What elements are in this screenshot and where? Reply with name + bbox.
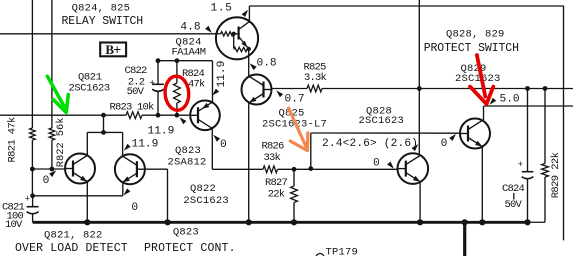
svg-text:C822: C822 xyxy=(125,65,148,77)
resistor R822 body xyxy=(49,128,55,140)
svg-text:PROTECT CONT.: PROTECT CONT. xyxy=(144,242,236,255)
svg-text:2SC1623: 2SC1623 xyxy=(69,82,110,94)
node dot Q822 base drop on bus xyxy=(164,219,170,225)
wire collector tie line y=132.4 xyxy=(87,131,122,133)
probe arrow 1.5 xyxy=(242,10,249,17)
node dot R829 top on y=88.5 xyxy=(543,86,548,91)
wire R825 to right continuing xyxy=(322,88,573,90)
node dot 2.4 line bottom xyxy=(308,166,313,171)
svg-text:Q822: Q822 xyxy=(190,183,216,195)
wire B+ horizontal line xyxy=(0,33,217,35)
resistor R825 body xyxy=(307,85,322,92)
svg-text:50V: 50V xyxy=(127,86,145,98)
annotation green arrow xyxy=(47,76,65,108)
node dot collector tie xyxy=(101,130,106,135)
svg-text:Q824, 825: Q824, 825 xyxy=(72,3,131,15)
wire 2.4 line horizontal y=133.6 to Q829 base xyxy=(311,132,460,134)
node dot R824 top xyxy=(175,58,180,63)
wire C824 vertical lower to bus xyxy=(527,179,529,222)
probe arrow 0 at Q823 collector xyxy=(213,135,220,142)
wire top rail y=60.7 C822/R824 to Q823 emitter xyxy=(158,60,213,62)
resistor R823 body on rail xyxy=(126,112,142,119)
test point TP179 circle xyxy=(316,254,324,256)
probe arrow 0 Q829 base xyxy=(449,134,456,141)
svg-text:+: + xyxy=(150,79,155,89)
probe arrow 0 emitter return xyxy=(124,188,131,195)
wire vertical R822 run x=51.9 xyxy=(51,0,53,128)
node dot R822 bottom xyxy=(50,167,55,172)
capacitor C821 xyxy=(32,196,34,206)
wire Q822 emitter drop x=122.8 xyxy=(122,182,124,196)
resistor R821 body xyxy=(30,128,36,140)
transistor Q828 xyxy=(398,153,429,184)
svg-text:11.9: 11.9 xyxy=(216,61,228,88)
svg-text:+: + xyxy=(113,42,121,57)
capacitor C824 xyxy=(522,171,534,173)
svg-text:OVER LOAD DETECT: OVER LOAD DETECT xyxy=(15,242,128,255)
svg-text:2SC1623: 2SC1623 xyxy=(183,195,229,207)
label C824 value 1 xyxy=(513,193,515,200)
wire main 11.9V rail horizontal xyxy=(0,114,126,116)
probe arrow 0 Q828 base xyxy=(387,162,394,169)
svg-text:+: + xyxy=(518,160,523,170)
svg-text:33k: 33k xyxy=(264,152,281,164)
node dot R827 top xyxy=(292,167,297,172)
svg-text:R822 56k: R822 56k xyxy=(55,118,67,168)
svg-text:Q823: Q823 xyxy=(173,227,199,239)
annotation red arrow xyxy=(477,55,485,96)
svg-text:2.4<2.6> (2.6): 2.4<2.6> (2.6) xyxy=(322,138,418,150)
Q824 internal base lead and bar xyxy=(234,33,239,35)
svg-text:+: + xyxy=(25,194,30,204)
wire vertical R821 run x=32.4 xyxy=(31,0,33,128)
wire Q823 collector run y=169.3 to R826 xyxy=(212,168,263,170)
svg-text:R829 22k: R829 22k xyxy=(550,152,562,198)
svg-text:0.8: 0.8 xyxy=(257,58,277,70)
transistor Q825 (mirrored) xyxy=(242,75,272,105)
wire Q824 emitter to Q825 collector x=248.7 xyxy=(248,49,250,77)
node dot C822 top xyxy=(156,58,161,63)
probe arrow 0.8 xyxy=(250,63,257,70)
svg-text:Q828, 829: Q828, 829 xyxy=(446,29,505,41)
node dot R824 bottom on rail xyxy=(175,113,180,118)
probe arrow 0 Q821 base xyxy=(49,170,56,177)
svg-text:FA1A4M: FA1A4M xyxy=(172,46,206,58)
wire 2.4 line vertical x=310.8 xyxy=(310,133,312,169)
wire Q824 collector up x=249.4 xyxy=(248,6,250,22)
svg-text:50V: 50V xyxy=(505,199,523,211)
node dot Q825 emitter on bus xyxy=(246,219,252,225)
resistor R829 vertical xyxy=(544,89,546,164)
node dot x=419.3 on y=88.5 line xyxy=(417,86,422,91)
annotation red circle around R824 xyxy=(164,75,190,111)
wire Q821 emitter down to bus xyxy=(86,182,88,223)
transistor Q829 xyxy=(460,119,490,149)
node dot Q824 emitter junction xyxy=(247,47,251,51)
svg-text:R827: R827 xyxy=(265,177,288,189)
node dot Q824 internal node xyxy=(232,32,236,36)
node dot rail x=103.5 xyxy=(101,113,106,118)
node dot Q829 emitter on bus xyxy=(479,219,485,225)
wire ground stem thick below bus xyxy=(463,222,466,256)
probe arrow 11.9 R824 node xyxy=(180,117,187,124)
node dot C821 top xyxy=(30,193,35,198)
wire Q825 emitter down to bus xyxy=(248,102,250,222)
svg-text:Q821, 822: Q821, 822 xyxy=(44,229,103,241)
wire y=195.8 emitter return line xyxy=(33,195,123,197)
node dot ground stem xyxy=(462,219,468,225)
svg-text:0.7: 0.7 xyxy=(285,94,305,106)
svg-text:11.9: 11.9 xyxy=(148,125,175,137)
wire top horizontal y=6 xyxy=(249,5,564,7)
transistor Q822 (mirrored) xyxy=(115,154,145,184)
wire Q822 collector up x=122.6 xyxy=(122,132,124,156)
resistor R824 vertical xyxy=(176,61,178,83)
B+ box xyxy=(100,43,126,57)
svg-text:0: 0 xyxy=(131,202,138,214)
svg-text:0: 0 xyxy=(373,158,380,170)
svg-text:R821 47k: R821 47k xyxy=(6,117,18,163)
wire R826 to Q828 base xyxy=(278,168,398,170)
svg-text:RELAY SWITCH: RELAY SWITCH xyxy=(62,15,144,28)
transistor Q823 PNP xyxy=(190,101,220,131)
svg-text:2SC1623: 2SC1623 xyxy=(359,115,405,127)
wire right border vertical x=563.5 xyxy=(563,6,565,240)
node dot R827 bottom on bus xyxy=(291,219,297,225)
wire Q821 base line y=169 xyxy=(32,168,65,170)
wire C824 vertical upper xyxy=(527,89,529,172)
wire Q829 collector horizontal y=106 to right edge xyxy=(484,105,573,107)
node dot C822 bottom on rail xyxy=(156,113,161,118)
node dot R821 bottom xyxy=(30,167,35,172)
Q824 internal input resistor xyxy=(221,32,234,36)
capacitor C822 xyxy=(157,61,159,84)
wire Q828 emitter down to bus xyxy=(419,182,421,222)
probe arrow 0.7 xyxy=(276,90,283,97)
svg-text:2SA812: 2SA812 xyxy=(168,157,207,169)
node dot Q821 emitter on bus xyxy=(84,219,90,225)
svg-text:R826: R826 xyxy=(262,140,285,152)
annotation orange arrow xyxy=(289,108,306,146)
Q824 internal resistor to emitter xyxy=(233,34,235,48)
wire x=32.4 down to C821 xyxy=(31,169,33,196)
transistor Q821 xyxy=(65,154,95,184)
wire x=419.3 vertical from top edge down to Q828 xyxy=(418,0,420,156)
wire Q829 emitter down to bus xyxy=(481,147,483,223)
svg-text:3.3k: 3.3k xyxy=(304,72,327,84)
svg-text:0: 0 xyxy=(441,138,448,150)
wire Q822 base to x=167.5 then down to bus xyxy=(145,168,168,170)
probe arrow 4.8 xyxy=(205,26,212,33)
svg-text:22k: 22k xyxy=(268,188,285,200)
ground bus thick horizontal xyxy=(33,221,528,224)
Q824 internal collector diagonal xyxy=(239,22,250,30)
svg-text:2SC1623: 2SC1623 xyxy=(455,73,501,85)
node dot C824 bottom on bus xyxy=(524,219,530,225)
svg-text:47k: 47k xyxy=(188,79,205,91)
probe arrow 2.6 line xyxy=(412,144,419,151)
svg-text:TP179: TP179 xyxy=(326,246,359,256)
wire Q823 collector down x=212.3 xyxy=(211,128,213,169)
svg-text:R823 10k: R823 10k xyxy=(110,102,155,114)
probe arrow 5.0 xyxy=(490,98,497,105)
svg-text:1.5: 1.5 xyxy=(211,2,233,14)
svg-text:PROTECT SWITCH: PROTECT SWITCH xyxy=(424,42,519,55)
ground bus thin extension to R829 xyxy=(528,221,546,223)
svg-text:5.0: 5.0 xyxy=(500,94,520,106)
wire x=103.5 up to rail xyxy=(103,115,105,132)
Q824 internal emitter diagonal with arrow xyxy=(239,37,248,48)
node dot Q828 emitter on bus xyxy=(417,219,423,225)
svg-text:10V: 10V xyxy=(5,219,23,231)
wire Q823 emitter up x=212.5 xyxy=(212,61,214,103)
svg-text:0: 0 xyxy=(220,139,227,151)
probe arrow 11.9 Q822 collector xyxy=(124,144,131,151)
svg-text:4.8: 4.8 xyxy=(180,21,200,33)
transistor Q824 digital FA1A4M xyxy=(216,17,258,59)
wire Q821 collector up x=86 xyxy=(86,132,88,155)
resistor R826 body xyxy=(263,166,278,173)
svg-text:0: 0 xyxy=(43,175,50,187)
svg-text:11.9: 11.9 xyxy=(132,138,159,150)
wire Q825 base line y=88.5 to right edge xyxy=(272,88,308,90)
wire Q829 collector jog to y=106 xyxy=(482,119,483,121)
resistor R827 vertical xyxy=(293,169,295,186)
svg-text:Q823: Q823 xyxy=(175,145,201,157)
node dot C824 top on y=88.5 xyxy=(525,86,530,91)
